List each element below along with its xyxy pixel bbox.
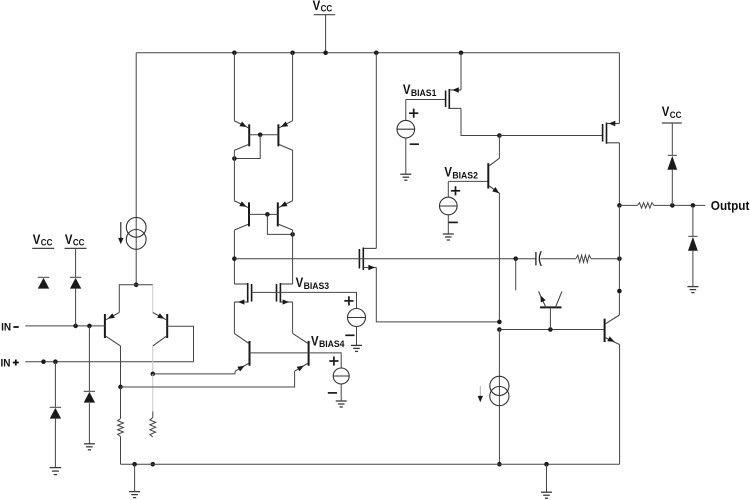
wire: Q4 base to Q4B collector (diode tie) — [267, 214, 292, 234]
junction: output V_CC diode — [670, 203, 675, 208]
wire: V_BIAS2 to Q6 base — [448, 180, 488, 182]
wire: Q3 base tie — [249, 134, 278, 136]
arrow of I1 (current direction) — [118, 222, 123, 244]
wire: V_BIAS1 to ground — [405, 138, 407, 174]
wire: node A to M3 gate — [499, 135, 602, 137]
transistor M5 (NMOS mirror, right) — [277, 283, 293, 333]
ground (under D3) — [50, 468, 62, 475]
svg-text:IN: IN — [1, 357, 11, 369]
wire: M1 drain to node A — [461, 108, 499, 135]
svg-text:V: V — [311, 333, 319, 348]
wire: Q6 emitter column — [498, 194, 500, 322]
wire: D3 to ground — [54, 419, 56, 468]
transistor Q3B (cascode PNP) — [278, 121, 292, 151]
junction: clamp base — [548, 327, 553, 332]
power V_CC (left #1) — [32, 232, 54, 249]
wire: rail to ground (left) — [134, 464, 136, 491]
capacitor C1 — [536, 251, 541, 266]
transistor Q4A (cascode PNP) — [234, 201, 249, 230]
wire: V_BIAS2 to ground — [447, 215, 449, 234]
wire: rail corner to M3 source — [618, 53, 620, 124]
wire: M2 source to tail node — [376, 268, 499, 322]
node: output takeoff — [617, 203, 622, 208]
minus of V_BIAS3 — [345, 334, 354, 336]
transistor M2 (second-stage NMOS) — [359, 248, 376, 271]
ground (under D6) — [687, 287, 698, 293]
svg-text:V: V — [403, 82, 411, 97]
node A: M1 drain / Q6 collector / M3 gate — [497, 133, 502, 138]
junction on rail (M1 source) — [459, 51, 464, 56]
wire: D5 to output — [671, 170, 673, 206]
arrow of I2 (current direction) — [478, 386, 483, 402]
junction: R2 column on bottom rail — [151, 462, 156, 467]
junction: output gnd diode — [691, 203, 696, 208]
transistor Q7 (output NPN) — [605, 315, 620, 464]
svg-text:BIAS4: BIAS4 — [319, 339, 345, 349]
wire: output to D6 — [692, 205, 694, 236]
wire: rail to ground (right) — [546, 464, 548, 492]
wire: R4 to output pin — [654, 204, 705, 206]
junction: clamp collector row — [617, 289, 622, 294]
wire: rail to M2 drain — [375, 53, 377, 249]
transistor Q6 (NPN, V_BIAS2) — [488, 136, 500, 194]
wire: Q1 collector drop — [120, 346, 122, 387]
junction: bottom rail ground tap (right) — [544, 462, 549, 467]
wire: V_CC to D2 — [75, 248, 77, 277]
transistor Q5B (PNP, right) — [121, 333, 309, 387]
voltage source V_BIAS1 — [397, 100, 415, 139]
power V_CC (output) — [662, 104, 682, 123]
wire: Q2 collector drop (faint) — [152, 346, 154, 374]
svg-text:V: V — [33, 232, 41, 247]
junction: comp on output column — [617, 256, 622, 261]
node: Q1 collector / cross-couple — [118, 385, 123, 390]
power V_CC (left #2) — [65, 232, 87, 249]
transistor Q1 (IN- input PNP) — [105, 313, 121, 346]
junction: M2 source joins column — [497, 320, 502, 325]
wire: right column to M5 — [292, 230, 294, 284]
wire: V_CC to D5 — [671, 123, 673, 155]
transistor M1 (PMOS cascode) — [446, 53, 461, 109]
svg-text:V: V — [313, 0, 321, 13]
wire: output column — [618, 205, 620, 315]
wire: output NPN base row — [499, 329, 604, 331]
svg-text:CC: CC — [41, 238, 53, 248]
wire: D4 to ground — [88, 403, 90, 444]
wire: stub below comp node — [515, 259, 517, 291]
junction: bottom rail ground tap (left) — [132, 462, 137, 467]
voltage source V_BIAS4 — [333, 368, 349, 384]
port Output — [711, 199, 750, 213]
transistor M4 (NMOS mirror, left) — [234, 283, 251, 333]
wire: R1 to bottom rail — [120, 437, 122, 465]
junction: comp node — [513, 256, 518, 261]
wire: V_BIAS3 to ground — [356, 327, 358, 346]
diode D6 (output clamp to gnd) — [688, 236, 698, 250]
wire: emitter node to Q1 — [119, 285, 136, 313]
wire: D6 to ground — [692, 251, 694, 287]
junction: output NPN base row — [497, 327, 502, 332]
svg-text:V: V — [296, 275, 304, 290]
wire: right cascode column — [292, 150, 294, 201]
wire: Q3 base to Q3A collector (diode tie) — [234, 135, 260, 159]
minus of V_BIAS2 — [449, 221, 458, 223]
wire: bottom ground rail — [121, 463, 620, 465]
wire: Q1 collector to R1 — [120, 387, 122, 419]
wire: left rail drop to I1 — [135, 53, 137, 285]
current source I1 (input tail) — [126, 217, 146, 249]
junction IN- / gnd diode — [87, 324, 92, 329]
label V_BIAS4 — [311, 333, 345, 349]
svg-text:V: V — [662, 104, 670, 119]
resistor R4 (output) — [637, 203, 654, 208]
node: Q2 collector / cross-couple — [151, 372, 156, 377]
wire: M4/M5 gate line to V_BIAS3 — [252, 292, 357, 308]
wire: V_BIAS4 to ground — [340, 384, 342, 401]
current source I2 — [490, 376, 509, 405]
wire: rail to Q3B emitter — [292, 53, 294, 121]
diode D3 (IN+ clamp to gnd) — [50, 407, 61, 418]
wire: IN- line — [25, 325, 105, 327]
wire: output node to R4 — [619, 204, 637, 206]
wire: top V_CC rail — [136, 52, 619, 54]
plus of V_BIAS4 — [329, 356, 338, 365]
diode D4 (IN- clamp to gnd) — [84, 391, 95, 402]
port IN+ — [1, 357, 19, 369]
svg-text:CC: CC — [73, 238, 85, 248]
junction: column on bottom rail — [497, 462, 502, 467]
ground (V_BIAS1) — [400, 174, 411, 180]
junction on rail (M2 drain) — [374, 51, 379, 56]
diode D2 (IN- clamp to V_CC) — [70, 277, 81, 288]
junction on rail (V_CC stub) — [323, 51, 328, 56]
junction on rail (right cascode) — [290, 51, 295, 56]
label V_BIAS2 — [444, 165, 478, 181]
voltage source V_BIAS2 — [440, 181, 458, 214]
ground (V_BIAS3) — [351, 345, 362, 351]
wire: IN- down to D4 — [88, 326, 90, 392]
voltage source V_BIAS3 — [348, 309, 366, 327]
ground (bottom right) — [541, 492, 552, 498]
resistor R3 (comp) — [576, 255, 591, 262]
svg-text:CC: CC — [670, 110, 682, 120]
wire: D2 to IN- line — [75, 289, 77, 326]
port IN- — [1, 321, 19, 333]
wire: Q4 base tie — [249, 213, 278, 215]
junction IN+ / gnd diode — [53, 359, 58, 364]
wire: V_BIAS1 to M1 gate — [406, 99, 446, 101]
wire: IN+ down to D3 — [54, 362, 56, 408]
wire: left column to M4 — [233, 230, 235, 284]
diode D1 (floating clamp to V_CC) — [38, 277, 49, 288]
label V_BIAS3 — [296, 275, 330, 291]
label V_BIAS1 — [403, 82, 437, 98]
diode D5 (output clamp to V_CC) — [667, 155, 677, 169]
svg-text:BIAS3: BIAS3 — [304, 281, 330, 291]
plus of V_BIAS3 — [344, 296, 353, 305]
junction IN+ (left) — [41, 359, 46, 364]
resistor R2 — [150, 412, 156, 438]
transistor Q3A (cascode PNP, diode-connected) — [234, 121, 249, 151]
wire: gate node row to C1 — [234, 258, 536, 260]
transistor Q2 (IN+ input PNP) — [153, 313, 167, 346]
wire: column to I2 — [498, 330, 500, 465]
junction on rail (left cascode) — [232, 51, 237, 56]
ground (bottom left) — [129, 492, 140, 498]
wire: R3 to output column — [591, 258, 619, 260]
wire: IN+ line — [25, 361, 193, 363]
node: second-stage gate tap — [232, 256, 237, 261]
power V_CC (top) — [313, 0, 336, 53]
svg-text:IN: IN — [1, 321, 11, 333]
transistor Q8 (clamp, rotated) — [539, 291, 562, 329]
resistor R1 — [118, 419, 124, 437]
wire: rail to Q3A emitter — [233, 53, 235, 121]
junction: diode tie on left column — [232, 156, 237, 161]
junction: diode tie on right column — [290, 232, 295, 237]
svg-text:BIAS2: BIAS2 — [452, 170, 478, 180]
transistor Q4B (cascode PNP, diode-connected) — [278, 201, 293, 230]
minus of V_BIAS1 — [410, 143, 419, 145]
junction: Q3 bases — [258, 133, 263, 138]
junction IN- / V_CC diode — [73, 324, 78, 329]
ground (under D4) — [84, 444, 95, 450]
wire: M3 drain to output node — [618, 143, 620, 206]
transistor Q5A (PNP, left) — [153, 333, 250, 374]
node: input pair emitter junction — [134, 283, 139, 288]
plus of V_BIAS2 — [451, 186, 460, 195]
junction: Q4 bases — [265, 212, 270, 217]
wire: C1 to R3 — [541, 258, 576, 260]
wire: Q5 base line to V_BIAS4 — [250, 353, 342, 368]
svg-text:V: V — [65, 232, 73, 247]
svg-text:CC: CC — [321, 4, 333, 14]
ground (V_BIAS4) — [336, 401, 347, 407]
svg-text:Output: Output — [711, 199, 750, 213]
wire: Q2 base — [167, 326, 193, 361]
ground (V_BIAS2) — [443, 234, 454, 240]
wire: left cascode column — [233, 150, 235, 201]
transistor M3 (output PMOS) — [603, 121, 620, 144]
svg-text:V: V — [444, 165, 452, 180]
plus of V_BIAS1 — [409, 109, 418, 118]
wire: emitter node to Q2 (faint) — [136, 285, 153, 313]
wire: Q2 collector to R2 (faint) — [152, 374, 154, 412]
svg-text:BIAS1: BIAS1 — [411, 88, 437, 98]
minus of V_BIAS4 — [328, 392, 337, 394]
